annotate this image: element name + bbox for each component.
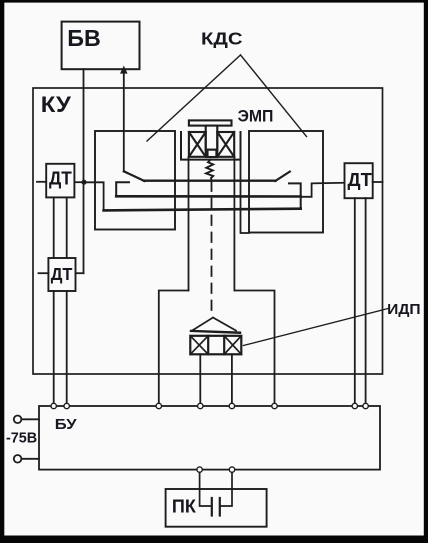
- ДТ3-БУ wire b: [365, 198, 367, 406]
- block БУ: [39, 406, 380, 470]
- svg-text:КДС: КДС: [201, 28, 243, 48]
- junction A dot: [81, 180, 86, 185]
- ДТ1-ДТ2 wire b: [66, 197, 68, 258]
- dashed armature link: [211, 182, 213, 318]
- terminal -75В upper: [14, 416, 39, 424]
- wire junction A down to ДТ2 output: [83, 182, 85, 273]
- svg-text:ДТ: ДТ: [49, 169, 72, 189]
- block ДТ2: [48, 258, 75, 291]
- ИДП left coil X: [190, 336, 208, 355]
- capacitor plate b: [219, 498, 221, 516]
- ЭМП armature foot: [208, 150, 217, 157]
- net right contact to ДТ3: [301, 183, 345, 197]
- block КУ: [33, 88, 383, 374]
- wire БВ left output to junction A: [83, 69, 85, 182]
- ДТ2-БУ wire b: [66, 291, 68, 406]
- block ПК: [166, 489, 267, 527]
- ДТ1 output wire: [74, 181, 83, 183]
- wire yoke to right contact box: [241, 160, 249, 233]
- ДТ3-БУ wire a: [354, 198, 356, 406]
- left contact diagonal: [124, 171, 145, 181]
- КДС pointer to right contact box: [241, 55, 307, 137]
- node cap-b on БУ bottom: [229, 467, 234, 472]
- ИДП housing right wall: [234, 291, 274, 407]
- ДТ2 left stub: [39, 272, 49, 274]
- node ДТ2-b on БУ: [64, 403, 69, 408]
- ИДП cone base bar: [191, 331, 240, 333]
- svg-text:БУ: БУ: [55, 416, 77, 433]
- block ДТ1: [46, 164, 74, 198]
- ДТ2 output wire: [76, 272, 84, 274]
- ИДП pointer line: [244, 309, 389, 346]
- right contact lever tip: [275, 172, 290, 181]
- node housing-left on БУ: [156, 403, 161, 408]
- spring: [206, 160, 213, 181]
- ИДП housing left wall: [159, 291, 189, 407]
- svg-text:БВ: БВ: [67, 25, 101, 51]
- ДТ1-ДТ2 wire a: [53, 197, 55, 258]
- node ДТ3-a on БУ: [352, 403, 357, 408]
- ИДП output wire a: [199, 354, 201, 406]
- ЭМП armature stem: [206, 126, 218, 150]
- svg-text:КУ: КУ: [41, 92, 72, 117]
- ДТ3 right stub: [373, 181, 383, 183]
- КДС pointer to left contact box: [147, 55, 241, 141]
- svg-text:ПК: ПК: [172, 496, 197, 517]
- wire right frame rod to ИДП housing: [233, 157, 235, 291]
- svg-text:ИДП: ИДП: [387, 302, 420, 318]
- right fixed contact: [289, 183, 301, 208]
- contact lever beam: [144, 179, 276, 181]
- block ДТ3: [345, 163, 373, 198]
- wire junction A to beam bottom rail: [84, 182, 104, 210]
- ИДП cone: [192, 318, 236, 331]
- node ДТ2-a on БУ: [51, 403, 56, 408]
- svg-text:-75В: -75В: [6, 431, 37, 447]
- left fixed contact: [116, 182, 129, 196]
- node ИДП-b on БУ: [229, 403, 234, 408]
- beam bottom rail: [104, 209, 301, 211]
- ЭМП yoke bracket: [181, 132, 241, 160]
- svg-text:ДТ: ДТ: [348, 169, 373, 190]
- node ДТ3-b on БУ: [363, 403, 368, 408]
- capacitor lead a: [200, 472, 211, 506]
- wire БВ right input (from contact): [123, 69, 125, 171]
- block БВ: [62, 22, 140, 70]
- ИДП coil body: [190, 336, 241, 355]
- wire left frame rod to ИДП housing: [188, 157, 190, 291]
- ДТ1 left stub: [37, 181, 46, 183]
- node ИДП-a on БУ: [198, 403, 203, 408]
- svg-text:ЭМП: ЭМП: [238, 108, 274, 126]
- beam middle rail: [116, 195, 301, 198]
- ИДП output wire b: [231, 354, 233, 406]
- ИДП right coil X: [224, 336, 241, 355]
- arrowhead into БВ: [120, 66, 128, 74]
- svg-text:ДТ: ДТ: [51, 264, 73, 284]
- terminal -75В lower: [14, 455, 39, 463]
- КДС right contact box: [249, 131, 323, 233]
- КДС left contact box: [95, 131, 175, 230]
- ЭМП left coil: [189, 132, 206, 157]
- ДТ2-БУ wire a: [53, 291, 55, 406]
- ЭМП armature top bar: [189, 120, 232, 125]
- node cap-a on БУ bottom: [197, 467, 202, 472]
- node housing-right on БУ: [272, 403, 277, 408]
- capacitor plate a: [211, 498, 213, 516]
- ЭМП right coil: [217, 132, 234, 157]
- capacitor lead b: [221, 472, 232, 506]
